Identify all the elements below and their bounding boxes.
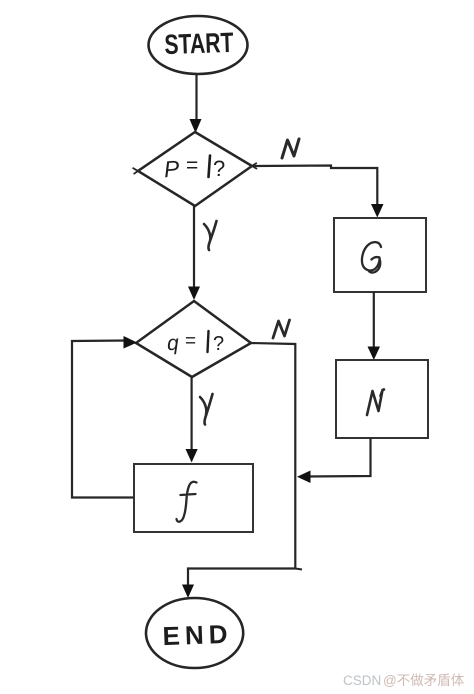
arrowhead into decision q left vertex: [124, 336, 138, 349]
svg-text:CSDN: CSDN: [343, 673, 381, 688]
svg-text:START: START: [164, 27, 234, 60]
decision diamond P=1?: [138, 132, 252, 206]
process box N: [336, 360, 428, 438]
wire decision P down to decision q: [193, 206, 195, 290]
wire decision q right and long down to END corner: [188, 343, 295, 592]
wire box N down-left to junction: [305, 438, 371, 477]
terminator START ellipse: [149, 16, 248, 74]
wire box G to box N: [373, 292, 375, 352]
wire decision q down to box f: [191, 377, 193, 453]
label N (right of q decision): [273, 320, 290, 338]
wire loop from box f left back to decision q: [72, 341, 134, 498]
corner overshoot tick: [295, 569, 302, 570]
arrowhead into box N: [368, 347, 381, 361]
svg-text:=: =: [186, 154, 198, 177]
svg-text:=: =: [185, 331, 196, 352]
arrowhead pointing left into vertical wire: [297, 471, 311, 484]
label N inside box: [367, 389, 384, 415]
label f inside box: [177, 482, 197, 522]
label G: [362, 242, 381, 272]
label N (right of P decision): [282, 139, 299, 158]
terminator END ellipse: [146, 598, 243, 668]
vertex overshoot ticks on diamond P: [133, 163, 256, 173]
wire decision P right to box G: [252, 166, 377, 209]
label Y (below P decision): [204, 221, 217, 250]
svg-text:@不做矛盾体: @不做矛盾体: [383, 673, 465, 688]
svg-text:?: ?: [213, 333, 224, 355]
arrowhead into decision q: [188, 287, 200, 301]
wire START to decision P: [195, 74, 197, 123]
arrowhead into box f: [186, 449, 198, 463]
svg-text:P: P: [163, 155, 181, 182]
svg-text:?: ?: [213, 156, 225, 181]
svg-text:END: END: [162, 619, 228, 651]
label Y (below q decision): [200, 394, 213, 425]
process box f: [134, 464, 253, 532]
process box G: [334, 218, 426, 292]
svg-text:q: q: [166, 332, 179, 356]
decision diamond q=1?: [136, 301, 251, 377]
arrowhead into box G: [371, 204, 384, 218]
arrowhead into END: [182, 585, 194, 599]
arrowhead into decision P: [190, 119, 202, 133]
